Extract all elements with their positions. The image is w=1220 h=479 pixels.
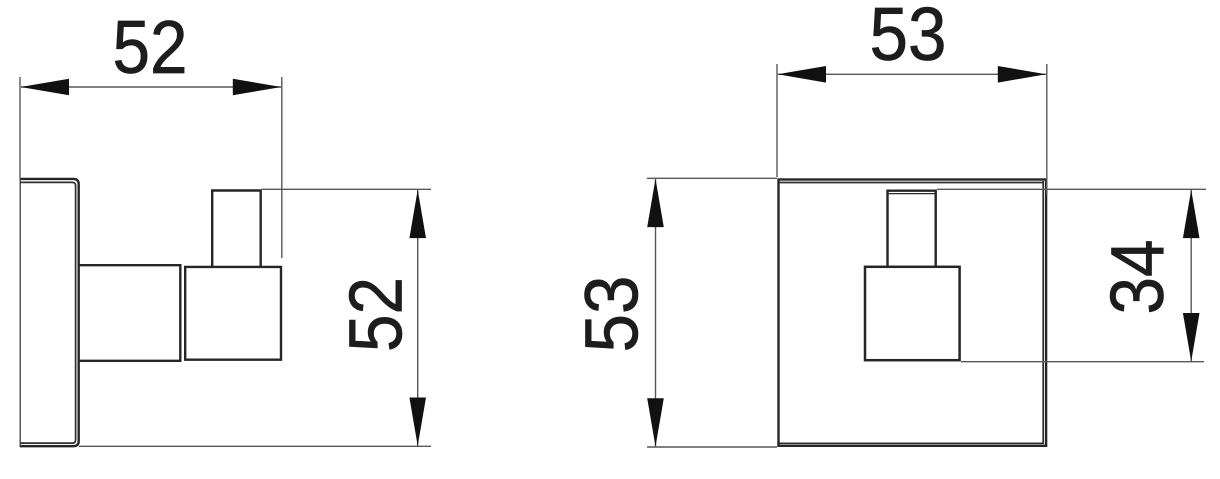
knob front square: [865, 267, 960, 360]
arrow right: [233, 79, 281, 96]
knob block (side view): [185, 267, 281, 360]
dimension line: [778, 73, 1046, 75]
hook tip (side view) left/top/right: [212, 191, 261, 267]
extension line top: [647, 177, 777, 179]
arrow right: [998, 66, 1046, 83]
arrow left: [21, 79, 69, 96]
extension line right: [281, 77, 283, 258]
face plate bottom inner chamfer line: [780, 442, 1045, 444]
face plate top inner chamfer line: [780, 182, 1045, 184]
arrow down: [1183, 313, 1200, 361]
arrow up: [409, 190, 426, 238]
extension line left: [19, 77, 21, 178]
wall plate back (left) thin edge: [19, 178, 21, 447]
svg-text:53: 53: [870, 0, 947, 76]
extension line left: [776, 64, 778, 177]
arm (side view) top/right/bottom: [80, 265, 181, 361]
dimension line: [21, 86, 281, 88]
extension line top: [937, 188, 1206, 190]
svg-text:34: 34: [1095, 240, 1179, 315]
dimension line: [655, 179, 657, 447]
face plate square outline: [779, 180, 1047, 446]
arrow up: [1183, 190, 1200, 238]
extension line bottom: [961, 361, 1204, 363]
svg-text:53: 53: [570, 276, 654, 353]
svg-text:52: 52: [334, 277, 418, 352]
extension line top: [262, 188, 432, 190]
arrow down: [409, 398, 426, 446]
dimension line: [1190, 190, 1192, 361]
dimension line: [417, 190, 419, 446]
arrow up: [647, 179, 664, 227]
face plate right inner chamfer line: [1042, 181, 1044, 444]
arm front inner top line: [889, 193, 935, 195]
wall plate inner chamfer contour: [20, 182, 76, 443]
arrow down: [647, 398, 664, 446]
extension line bottom: [647, 446, 777, 448]
arm front rectangle: [888, 191, 936, 266]
wall plate side outline (top, right, bottom thick): [20, 179, 79, 446]
extension line bottom: [79, 445, 431, 447]
extension line right: [1046, 64, 1048, 194]
arrow left: [778, 66, 826, 83]
svg-text:52: 52: [113, 5, 188, 89]
